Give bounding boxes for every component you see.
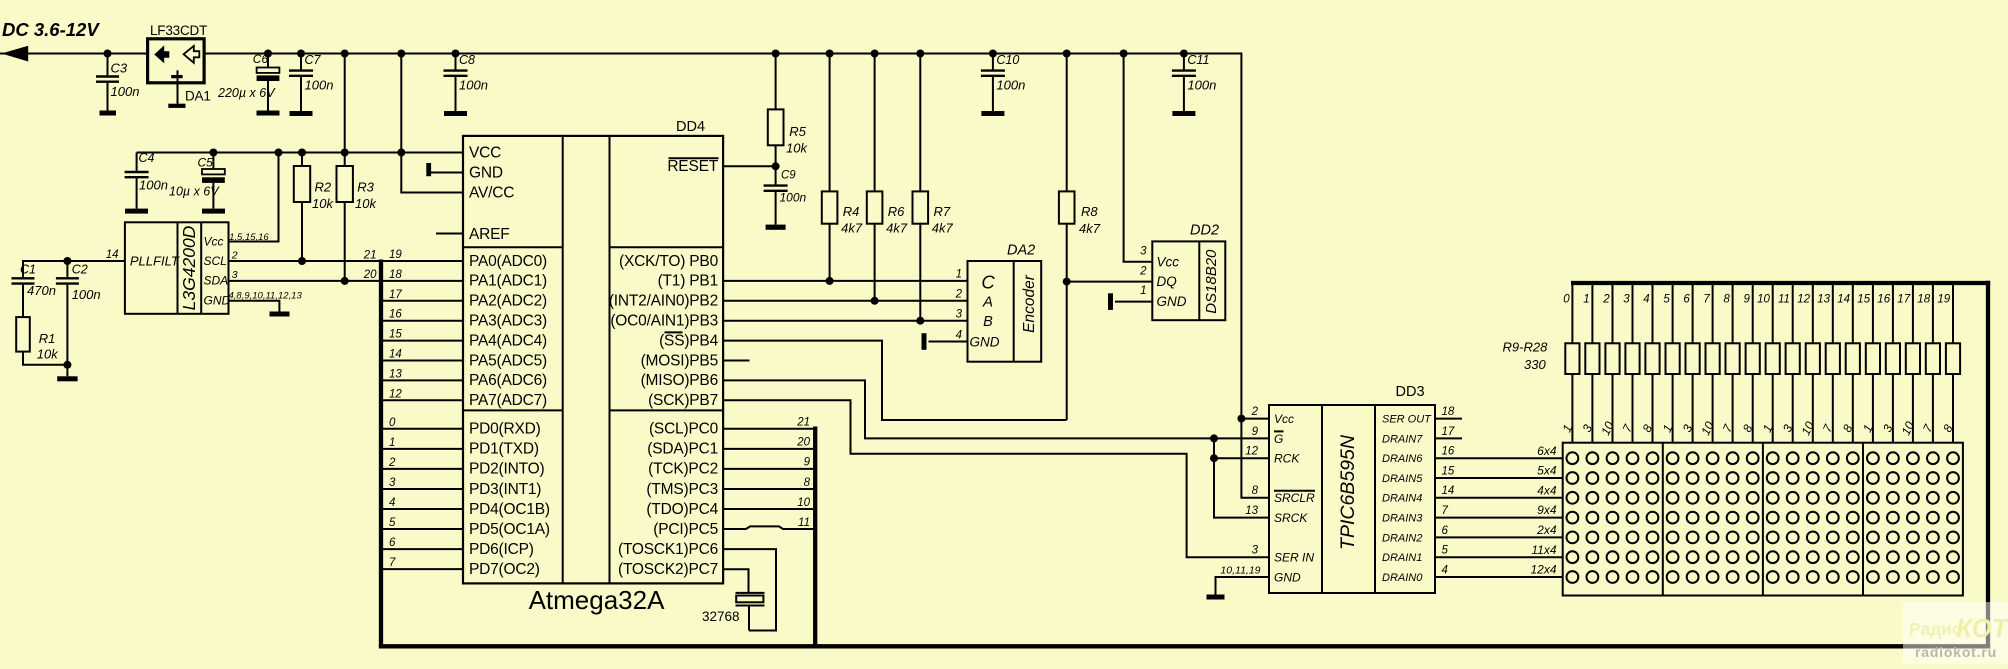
- svg-text:C9: C9: [781, 170, 796, 182]
- svg-text:3: 3: [956, 308, 963, 320]
- svg-text:12: 12: [1245, 446, 1258, 458]
- wire: DS18B20 GND: [1115, 301, 1152, 303]
- svg-text:(XCK/TO) PB0: (XCK/TO) PB0: [619, 253, 719, 270]
- LED row 3: [1567, 492, 1579, 504]
- wire: RCK pin: [1214, 457, 1269, 459]
- pin 3 PD3(INT1): [381, 477, 541, 498]
- wire: 3.3V distribution rail: [137, 152, 402, 154]
- svg-text:13: 13: [389, 368, 402, 380]
- pin 14 PA5(ADC5): [381, 349, 547, 370]
- svg-text:17: 17: [389, 289, 402, 301]
- svg-text:1: 1: [1140, 285, 1146, 297]
- svg-text:PA6(ADC6): PA6(ADC6): [469, 372, 547, 389]
- svg-text:10: 10: [797, 497, 810, 509]
- wire: PC3 net 8 to bus: [723, 488, 813, 490]
- resistor R23 (column 14): [1837, 283, 1860, 443]
- svg-text:0: 0: [389, 417, 396, 429]
- svg-text:PD0(RXD): PD0(RXD): [469, 421, 541, 438]
- wire: encoder GND: [929, 341, 968, 343]
- pin 1 PD1(TXD): [381, 437, 539, 458]
- pin 19 PA0(ADC0): [381, 249, 547, 270]
- svg-text:R3: R3: [357, 180, 374, 195]
- svg-text:AV/CC: AV/CC: [469, 184, 514, 201]
- resistor R3 10k: [337, 153, 378, 281]
- svg-text:DRAIN7: DRAIN7: [1382, 433, 1423, 445]
- svg-text:11: 11: [798, 517, 810, 529]
- ground (DA1): [168, 104, 185, 108]
- pin 18 PA1(ADC1): [381, 269, 547, 290]
- svg-text:14: 14: [1442, 485, 1455, 497]
- crystal ZQ 32768: [702, 593, 765, 631]
- wire: PC2 net 9 to bus: [723, 468, 813, 470]
- svg-text:4k7: 4k7: [932, 221, 954, 236]
- svg-text:C5: C5: [198, 156, 214, 170]
- wire: PB3 to encoder B (with R7 junction): [723, 320, 967, 322]
- resistor R2 10k: [294, 153, 335, 262]
- svg-text:(INT2/AIN0)PB2: (INT2/AIN0)PB2: [609, 293, 718, 310]
- svg-text:1: 1: [956, 269, 962, 281]
- svg-text:GND: GND: [204, 294, 231, 308]
- svg-text:10µ x 6V: 10µ x 6V: [169, 185, 220, 199]
- svg-text:RCK: RCK: [1274, 452, 1300, 466]
- svg-text:32768: 32768: [702, 609, 740, 624]
- LED row 7: [1567, 571, 1579, 583]
- wire: SER OUT stub: [1435, 418, 1462, 420]
- svg-text:6: 6: [389, 537, 396, 549]
- LED row 1: [1567, 452, 1579, 464]
- wire DRAIN4 row (4x4): [1435, 497, 1563, 499]
- resistor R10 (column 1): [1580, 283, 1600, 443]
- svg-text:PA3(ADC3): PA3(ADC3): [469, 313, 547, 330]
- svg-text:18: 18: [389, 269, 402, 281]
- svg-text:5: 5: [389, 517, 396, 529]
- MCU DD4 Atmega32A body: [463, 119, 723, 615]
- svg-text:2: 2: [1602, 294, 1610, 306]
- LED row 4: [1567, 512, 1579, 524]
- svg-text:3: 3: [232, 269, 238, 281]
- svg-text:GND: GND: [1157, 294, 1187, 309]
- resistor R12 (column 3): [1620, 283, 1640, 443]
- ground (DS18B20): [1108, 293, 1113, 310]
- svg-text:10: 10: [1757, 294, 1770, 306]
- svg-text:3: 3: [1623, 294, 1630, 306]
- bus: PC vertical x=815: [813, 427, 817, 649]
- svg-text:(TMS)PC3: (TMS)PC3: [646, 481, 718, 498]
- wire: rail drop x=344.7: [344, 54, 346, 153]
- svg-text:330: 330: [1524, 357, 1546, 372]
- svg-text:100n: 100n: [1187, 78, 1216, 93]
- svg-text:100n: 100n: [72, 287, 101, 302]
- temperature sensor DD2 DS18B20: [1152, 223, 1225, 321]
- svg-text:DA1: DA1: [185, 89, 211, 104]
- svg-text:14: 14: [106, 249, 119, 261]
- junction (C2/R1 ground): [63, 361, 71, 369]
- svg-text:11: 11: [1778, 294, 1790, 306]
- resistor R21 (column 12): [1797, 283, 1820, 443]
- svg-text:SDA: SDA: [204, 274, 229, 288]
- wire: PC1 net 20 to bus: [723, 448, 813, 450]
- bus: left vertical (port A/D nets): [379, 260, 383, 649]
- input arrow terminal: [2, 46, 29, 62]
- pin 4 PD4(OC1B): [381, 497, 550, 518]
- svg-text:R2: R2: [315, 180, 332, 195]
- svg-text:GND: GND: [970, 335, 1000, 350]
- svg-text:GND: GND: [1274, 570, 1301, 584]
- LED row 2: [1567, 472, 1579, 484]
- svg-text:20: 20: [796, 437, 810, 449]
- svg-text:DRAIN6: DRAIN6: [1382, 453, 1423, 465]
- svg-text:SRCK: SRCK: [1274, 511, 1308, 525]
- svg-text:5: 5: [1663, 294, 1670, 306]
- svg-text:C: C: [981, 272, 995, 293]
- svg-text:Vcc: Vcc: [1274, 412, 1294, 426]
- wire DRAIN2 row (2x4): [1435, 536, 1563, 538]
- svg-text:PD5(OC1A): PD5(OC1A): [469, 521, 550, 538]
- svg-text:10k: 10k: [37, 347, 59, 362]
- svg-text:LF33CDT: LF33CDT: [150, 23, 207, 38]
- svg-text:(MISO)PB6: (MISO)PB6: [641, 372, 718, 389]
- svg-text:DRAIN0: DRAIN0: [1382, 572, 1423, 584]
- svg-text:PD6(ICP): PD6(ICP): [469, 541, 534, 558]
- wire: PB2 to encoder A (with R6 junction): [723, 300, 967, 302]
- svg-text:100n: 100n: [305, 78, 334, 93]
- capacitor C10: [981, 50, 1025, 117]
- wire: PC5 net 11 to bus: [723, 526, 813, 529]
- wire: DS18B20 Vcc from rail: [1120, 50, 1128, 58]
- svg-text:(SS)PB4: (SS)PB4: [659, 332, 718, 349]
- svg-text:2x4: 2x4: [1536, 523, 1557, 537]
- svg-text:15: 15: [1442, 465, 1455, 477]
- junction dots on 3.3V rail: [209, 149, 217, 157]
- svg-text:16: 16: [1877, 294, 1890, 306]
- wire: PC7 to crystal: [723, 569, 748, 593]
- svg-text:PA7(ADC7): PA7(ADC7): [469, 392, 547, 409]
- ground (C3): [100, 111, 117, 116]
- svg-text:17: 17: [1897, 294, 1910, 306]
- wire DRAIN6 row (6x4): [1435, 457, 1563, 459]
- resistor R14 (column 5): [1660, 283, 1680, 443]
- svg-text:(TDO)PC4: (TDO)PC4: [646, 501, 718, 518]
- pin 0 PD0(RXD): [381, 417, 541, 438]
- svg-text:PD2(INTO): PD2(INTO): [469, 461, 544, 478]
- svg-text:4x4: 4x4: [1537, 483, 1557, 497]
- svg-text:C3: C3: [111, 61, 128, 76]
- svg-text:100n: 100n: [459, 78, 488, 93]
- svg-text:2: 2: [388, 457, 396, 469]
- LED row 6: [1567, 551, 1579, 563]
- svg-text:18: 18: [1442, 406, 1455, 418]
- svg-text:(PCI)PC5: (PCI)PC5: [653, 521, 718, 538]
- resistor R26 (column 17): [1897, 283, 1920, 443]
- svg-text:R7: R7: [934, 204, 951, 219]
- resistor R24 (column 15): [1857, 283, 1880, 443]
- capacitor C1: [12, 261, 125, 301]
- svg-text:8: 8: [804, 477, 811, 489]
- svg-text:SCL: SCL: [204, 254, 227, 268]
- svg-text:DA2: DA2: [1007, 243, 1035, 259]
- svg-text:2: 2: [231, 250, 238, 262]
- wire: Vcc drop to TPIC Vcc and SRCLR: [1241, 418, 1269, 420]
- wire: L3G Vcc to rail: [229, 153, 279, 242]
- capacitor C5 electrolytic: [169, 153, 225, 209]
- svg-text:16: 16: [1442, 446, 1455, 458]
- svg-text:DD3: DD3: [1396, 384, 1425, 400]
- svg-text:R9-R28: R9-R28: [1503, 340, 1549, 355]
- svg-text:DC 3.6-12V: DC 3.6-12V: [2, 19, 100, 40]
- svg-text:10k: 10k: [355, 196, 377, 211]
- svg-text:12: 12: [1797, 294, 1810, 306]
- svg-text:100n: 100n: [111, 84, 140, 99]
- svg-text:DQ: DQ: [1157, 274, 1178, 289]
- svg-text:5: 5: [1442, 545, 1449, 557]
- svg-text:4k7: 4k7: [886, 221, 908, 236]
- svg-text:(OC0/AIN1)PB3: (OC0/AIN1)PB3: [610, 313, 718, 330]
- gyroscope L3G4200D: [125, 222, 231, 313]
- svg-text:R8: R8: [1081, 204, 1098, 219]
- wire: DRAIN7 stub: [1435, 437, 1462, 439]
- watermark radiokot: [1903, 602, 2008, 664]
- svg-text:(SDA)PC1: (SDA)PC1: [647, 441, 718, 458]
- svg-text:10,11,19: 10,11,19: [1220, 564, 1260, 576]
- resistor R15 (column 6): [1680, 283, 1700, 443]
- svg-text:21: 21: [363, 250, 377, 262]
- wire: 3.3V rail from regulator to right edge: [204, 54, 1241, 419]
- svg-text:КОТ: КОТ: [1956, 613, 2008, 643]
- svg-text:6: 6: [1442, 525, 1449, 537]
- resistor R16 (column 7): [1698, 283, 1719, 443]
- capacitor C4: [125, 151, 168, 209]
- svg-text:DS18B20: DS18B20: [1203, 249, 1220, 314]
- svg-text:4k7: 4k7: [1079, 221, 1101, 236]
- svg-text:DRAIN5: DRAIN5: [1382, 473, 1423, 485]
- svg-text:9: 9: [1252, 426, 1259, 438]
- svg-text:(MOSI)PB5: (MOSI)PB5: [641, 352, 718, 369]
- svg-text:100n: 100n: [996, 78, 1025, 93]
- wire: rail drop x=401.3: [400, 54, 402, 153]
- wire: TPIC GND: [1216, 577, 1270, 595]
- svg-text:7: 7: [1703, 294, 1710, 306]
- svg-text:9x4: 9x4: [1537, 503, 1557, 517]
- svg-text:100n: 100n: [139, 178, 168, 193]
- svg-text:1: 1: [389, 437, 395, 449]
- svg-text:18: 18: [1917, 294, 1930, 306]
- svg-text:220µ x 6V: 220µ x 6V: [217, 86, 276, 100]
- svg-text:L3G4200D: L3G4200D: [179, 225, 199, 310]
- ground (C5): [202, 209, 225, 214]
- svg-text:SRCLR: SRCLR: [1274, 491, 1315, 505]
- capacitor C7: [289, 50, 333, 117]
- svg-text:8: 8: [1723, 294, 1730, 306]
- svg-text:8: 8: [1252, 485, 1259, 497]
- svg-text:C6: C6: [253, 52, 269, 66]
- wire: PC0 net 21 to bus: [723, 428, 813, 430]
- svg-text:4: 4: [389, 497, 395, 509]
- svg-text:AREF: AREF: [469, 226, 510, 243]
- ground (C4): [125, 209, 148, 214]
- bus: top horizontal to LED columns: [1571, 281, 1990, 285]
- svg-text:PA2(ADC2): PA2(ADC2): [469, 293, 547, 310]
- pin 6 PD6(ICP): [381, 537, 534, 558]
- wire DRAIN3 row (9x4): [1435, 517, 1563, 519]
- svg-text:PLLFILT: PLLFILT: [130, 254, 180, 269]
- svg-text:R6: R6: [888, 204, 905, 219]
- capacitor C3: [96, 54, 139, 111]
- svg-text:PA5(ADC5): PA5(ADC5): [469, 352, 547, 369]
- wire: G/RCK/SRCK tie: [1214, 438, 1269, 517]
- wire DRAIN0 row (12x4): [1435, 576, 1563, 578]
- svg-text:20: 20: [363, 269, 377, 281]
- wire: DQ to DS18B20: [1067, 281, 1153, 283]
- pin 5 PD5(OC1A): [381, 517, 550, 538]
- resistor R5 10k: [768, 54, 809, 167]
- wire: PC6 to crystal: [723, 549, 776, 630]
- svg-text:1: 1: [1583, 294, 1589, 306]
- svg-text:12x4: 12x4: [1530, 563, 1556, 577]
- LED matrix block (4 x 5x7 modules): [1563, 443, 1963, 596]
- svg-text:(T1) PB1: (T1) PB1: [658, 273, 718, 290]
- svg-text:C8: C8: [459, 53, 475, 67]
- svg-text:RESET: RESET: [667, 158, 718, 175]
- svg-text:PD7(OC2): PD7(OC2): [469, 561, 540, 578]
- svg-text:12: 12: [389, 388, 402, 400]
- svg-text:6: 6: [1683, 294, 1690, 306]
- wire: PB7 to TPIC SER IN: [723, 400, 1269, 557]
- ground (C6): [257, 111, 280, 116]
- svg-text:100n: 100n: [780, 191, 807, 205]
- svg-text:2: 2: [1139, 265, 1147, 277]
- svg-text:(SCK)PB7: (SCK)PB7: [648, 392, 718, 409]
- junction dots on main rail: [341, 50, 349, 58]
- svg-text:PA0(ADC0): PA0(ADC0): [469, 253, 547, 270]
- svg-text:PD4(OC1B): PD4(OC1B): [469, 501, 550, 518]
- capacitor C11: [1172, 50, 1216, 117]
- svg-text:DD2: DD2: [1190, 223, 1219, 239]
- wire DRAIN5 row (5x4): [1435, 477, 1563, 479]
- svg-text:9: 9: [1743, 294, 1750, 306]
- svg-text:DRAIN3: DRAIN3: [1382, 513, 1423, 525]
- pin 13 PA6(ADC6): [381, 368, 547, 389]
- pin 12 PA7(ADC7): [381, 388, 547, 409]
- svg-text:10k: 10k: [786, 141, 808, 156]
- svg-text:R4: R4: [843, 204, 860, 219]
- svg-text:C1: C1: [20, 263, 36, 277]
- svg-text:PD1(TXD): PD1(TXD): [469, 441, 539, 458]
- svg-text:4: 4: [1442, 564, 1448, 576]
- resistor R8 4k7: [1063, 50, 1071, 58]
- svg-text:C2: C2: [72, 263, 88, 277]
- resistor R20 (column 11): [1778, 283, 1800, 443]
- svg-text:19: 19: [1937, 294, 1950, 306]
- svg-text:B: B: [983, 314, 993, 330]
- resistor R19 (column 10): [1757, 283, 1780, 443]
- svg-text:C11: C11: [1187, 53, 1209, 67]
- ground (L3G): [270, 312, 290, 317]
- wire: G pin: [1214, 437, 1269, 439]
- svg-text:Vcc: Vcc: [204, 234, 224, 248]
- resistor R13 (column 4): [1640, 283, 1660, 443]
- svg-text:7: 7: [389, 557, 396, 569]
- svg-text:3: 3: [389, 477, 396, 489]
- svg-text:DRAIN2: DRAIN2: [1382, 532, 1422, 544]
- svg-text:15: 15: [1857, 294, 1870, 306]
- svg-text:C4: C4: [139, 151, 155, 165]
- svg-text:17: 17: [1442, 426, 1455, 438]
- ground (TPIC): [1207, 595, 1225, 600]
- svg-text:Радио: Радио: [1909, 619, 1963, 639]
- pin 16 PA3(ADC3): [381, 309, 547, 330]
- svg-text:4k7: 4k7: [841, 221, 863, 236]
- wire: PB1 to encoder C (with R4 junction): [723, 280, 967, 282]
- pin RESET: [667, 158, 775, 175]
- svg-text:Atmega32A: Atmega32A: [529, 585, 666, 615]
- svg-text:14: 14: [1837, 294, 1850, 306]
- svg-text:PA4(ADC4): PA4(ADC4): [469, 332, 547, 349]
- bus: bottom horizontal: [379, 644, 1990, 648]
- svg-text:Encoder: Encoder: [1021, 274, 1038, 333]
- capacitor C2: [56, 257, 101, 365]
- bus: right vertical: [1986, 281, 1990, 649]
- svg-text:13: 13: [1245, 505, 1258, 517]
- resistor R11 (column 2): [1598, 283, 1619, 443]
- svg-text:2: 2: [1251, 406, 1259, 418]
- svg-text:GND: GND: [469, 164, 503, 181]
- svg-text:SER IN: SER IN: [1274, 551, 1314, 565]
- svg-text:4: 4: [1643, 294, 1649, 306]
- svg-text:10k: 10k: [312, 196, 334, 211]
- pin 15 PA4(ADC4): [381, 329, 547, 350]
- voltage regulator DA1 LF33CDT: [148, 23, 211, 104]
- pin 17 PA2(ADC2): [381, 289, 547, 310]
- wire: PB4 to DQ net: [723, 341, 1067, 420]
- svg-text:19: 19: [389, 249, 402, 261]
- svg-text:9: 9: [804, 457, 811, 469]
- svg-text:15: 15: [389, 329, 402, 341]
- svg-text:A: A: [982, 294, 993, 311]
- svg-text:DRAIN4: DRAIN4: [1382, 493, 1422, 505]
- resistor R22 (column 13): [1817, 283, 1840, 443]
- svg-text:C7: C7: [305, 53, 322, 67]
- svg-text:SER OUT: SER OUT: [1382, 414, 1432, 426]
- capacitor C6 electrolytic: [217, 50, 279, 111]
- rotary encoder DA2: [968, 243, 1042, 362]
- capacitor C9: [764, 166, 807, 224]
- svg-text:(TCK)PC2: (TCK)PC2: [648, 461, 718, 478]
- svg-text:5x4: 5x4: [1537, 464, 1557, 478]
- svg-text:radiokot.ru: radiokot.ru: [1915, 644, 1997, 660]
- wire: DC input to regulator: [0, 53, 148, 55]
- wire: PB5 stub: [723, 360, 749, 362]
- wire DRAIN1 row (11x4): [1435, 556, 1563, 558]
- ground (encoder): [922, 333, 927, 350]
- svg-text:Vcc: Vcc: [1157, 254, 1180, 269]
- resistor R4 4k7: [826, 50, 834, 58]
- svg-text:TPIC6B595N: TPIC6B595N: [1337, 434, 1359, 550]
- LED row 5: [1567, 532, 1579, 544]
- resistor R28 (column 19): [1937, 283, 1960, 443]
- svg-text:(TOSCK1)PC6: (TOSCK1)PC6: [618, 541, 718, 558]
- ground (C9): [766, 225, 786, 230]
- svg-text:(SCL)PC0: (SCL)PC0: [649, 421, 719, 438]
- svg-text:2: 2: [955, 288, 963, 300]
- shift register DD3 TPIC6B595N: [1269, 384, 1435, 593]
- svg-text:(TOSCK2)PC7: (TOSCK2)PC7: [618, 561, 718, 578]
- wire: PC4 net 10 to bus: [723, 508, 813, 510]
- svg-text:R5: R5: [789, 124, 806, 139]
- svg-text:16: 16: [389, 309, 402, 321]
- svg-text:DRAIN1: DRAIN1: [1382, 552, 1422, 564]
- resistor R25 (column 16): [1877, 283, 1900, 443]
- resistor R6 4k7: [871, 50, 879, 58]
